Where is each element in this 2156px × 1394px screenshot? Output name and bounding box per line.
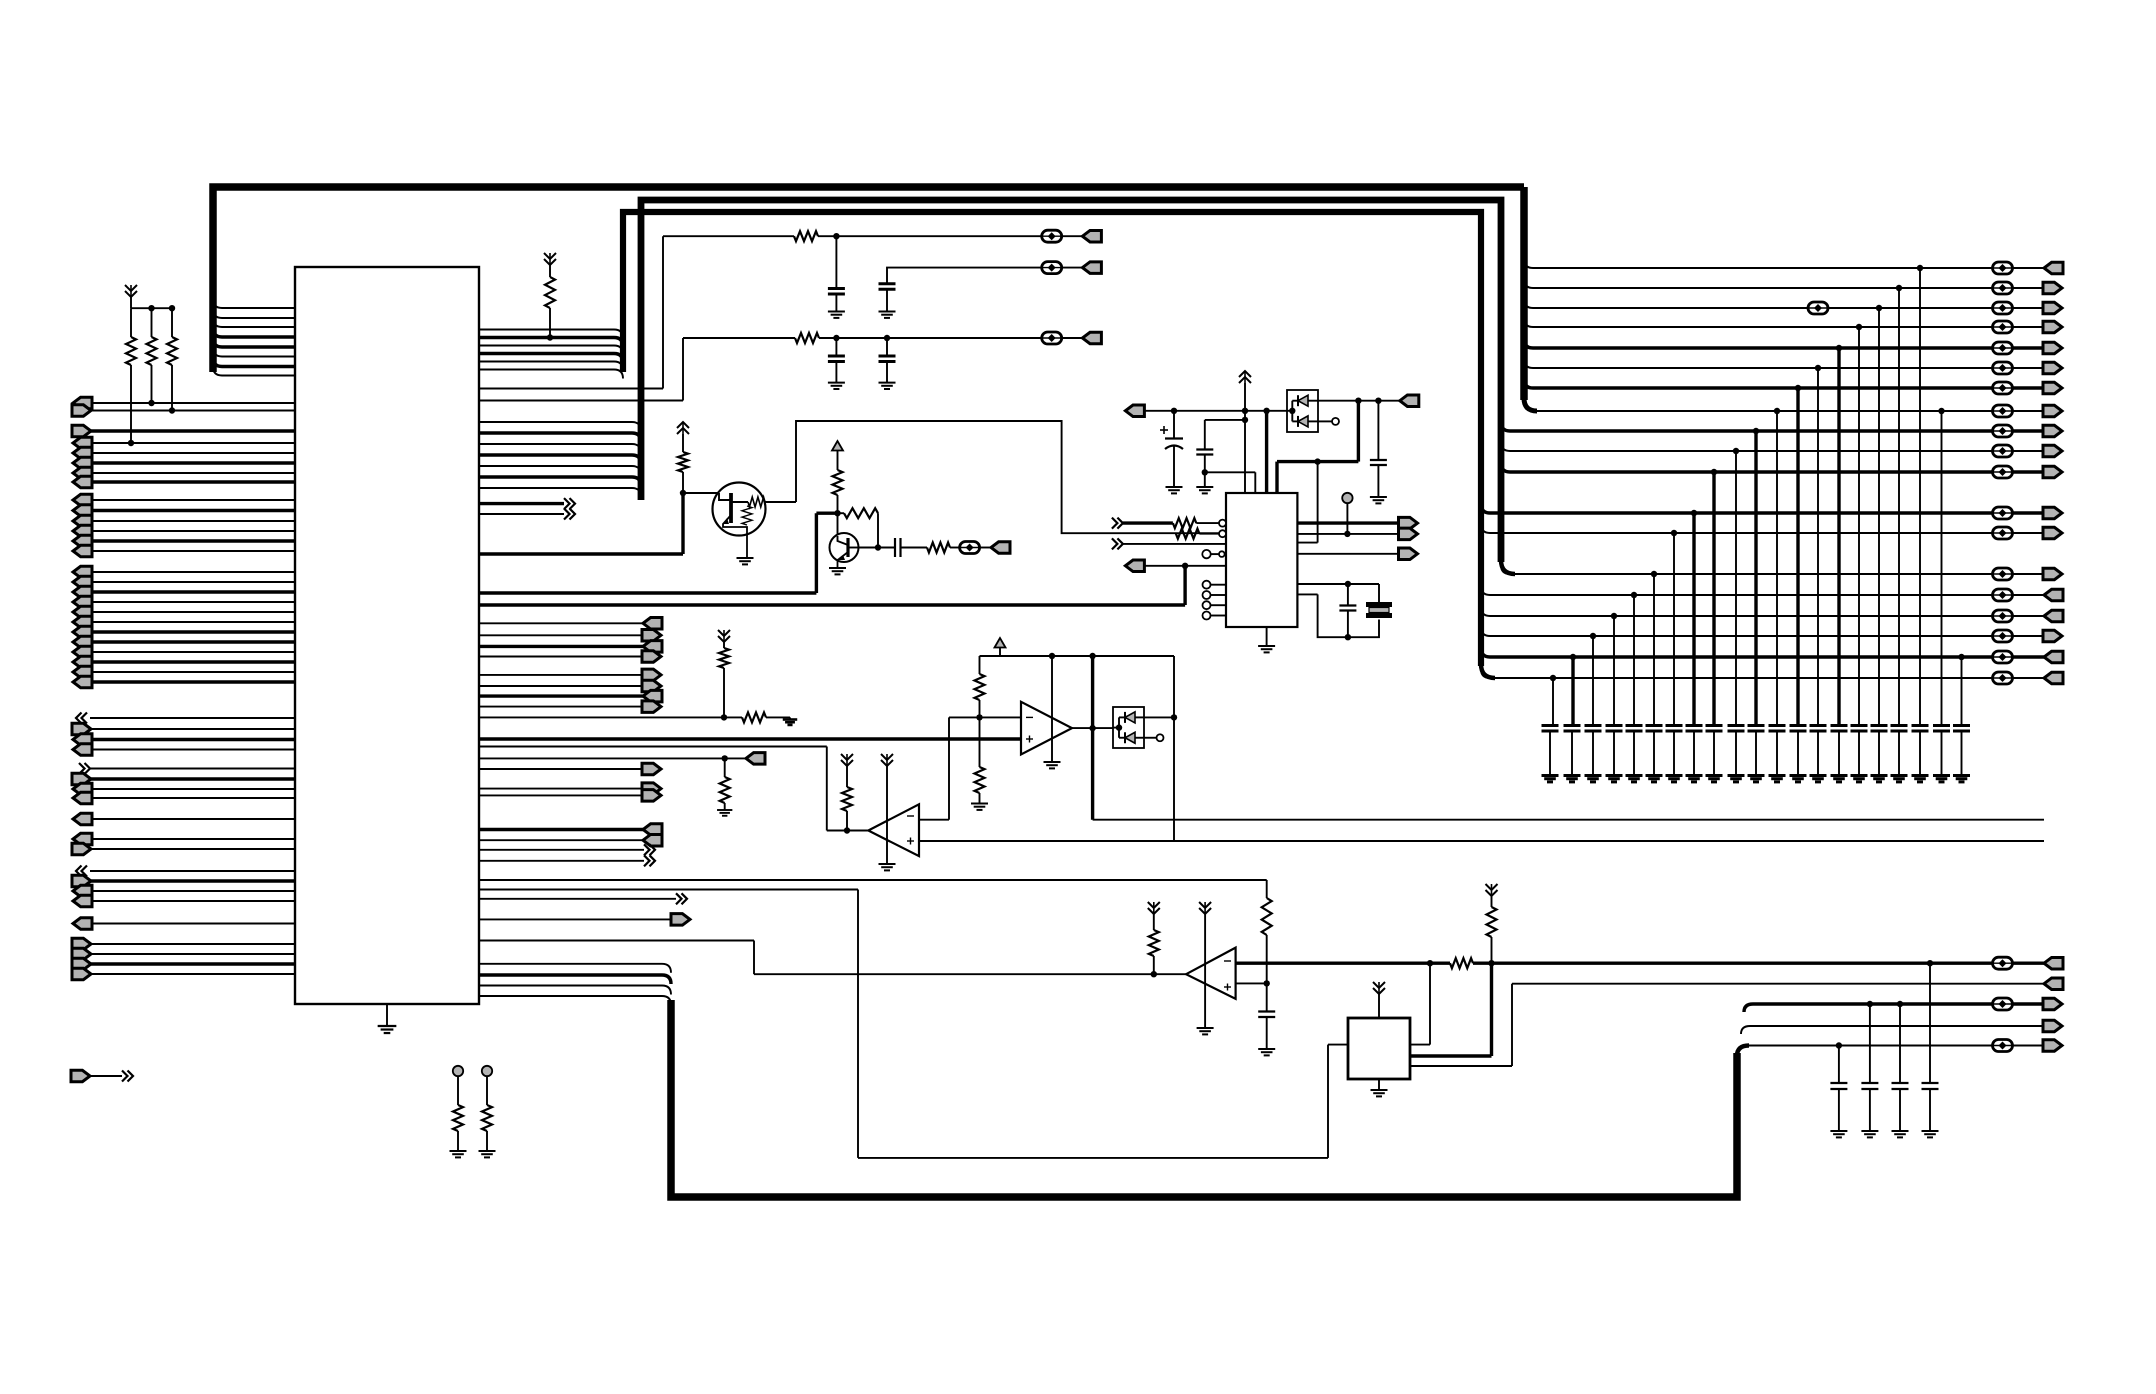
U2 top pin gnd loop (1202, 469, 1208, 475)
ground C268 (879, 311, 896, 313)
wire U2B +in row841 (919, 840, 2044, 842)
ground C-U2 (1196, 486, 1213, 488)
cap drop x=1818 (1815, 365, 1821, 371)
test point row 574 (1993, 568, 2013, 580)
wire bundle left y=366.5 (222, 365, 295, 368)
wire left pin y=718 (90, 717, 295, 719)
test point row 368 (1993, 362, 2013, 374)
row 820 right field (1093, 819, 2044, 821)
connector left in (73, 626, 92, 638)
connector left in (73, 447, 92, 459)
U2 top pin to diode node (1275, 462, 1278, 493)
wire bundle left y=318 (222, 317, 295, 319)
wire left pin y=463 (90, 461, 295, 464)
vertical D1 to U2 (1357, 401, 1360, 462)
arrow out 514 (479, 513, 564, 515)
wire left pin y=602 (90, 601, 295, 603)
capacitor series C-Q2 (894, 538, 896, 557)
connector left in (73, 833, 92, 845)
row 1004 bold (1753, 1002, 1992, 1005)
capacitor C338b (886, 338, 888, 356)
connector row1004 (2043, 998, 2062, 1010)
wire left pin y=500 (90, 499, 295, 501)
connector (2043, 527, 2062, 539)
connector (2043, 425, 2062, 437)
Q1 collector wire (764, 501, 796, 503)
connector (2043, 302, 2062, 314)
ground Q2 (829, 567, 846, 569)
wire bottom 1157 (858, 1157, 1328, 1159)
wire right row y=472 (1510, 470, 1992, 473)
wire 880 corner to resistor (1266, 880, 1268, 898)
connector right in (72, 968, 91, 980)
ground U4 (1378, 1079, 1380, 1090)
wire right row y=411 (1533, 410, 1992, 412)
arrow out 503 (479, 502, 564, 505)
U2 right row 523 (1297, 521, 1398, 524)
wire left pin y=672 (90, 671, 295, 673)
wire Q1 base row 554 (479, 552, 683, 555)
bus2 (641, 200, 1501, 562)
connector (2044, 610, 2063, 622)
wire right pin y=674.9 (479, 674, 643, 676)
wire right pin y=795.4 (479, 794, 642, 796)
connector left in (73, 636, 92, 648)
connector row1045 (2043, 1040, 2062, 1052)
bank cap x=1839 (1831, 724, 1848, 727)
cap drop x=1756 (1753, 428, 1759, 434)
wire right row y=431 (1510, 429, 1992, 432)
test point row 513 (1993, 507, 2013, 519)
vertical row657 to cap1962 (1958, 654, 1964, 660)
connector left in (73, 606, 92, 618)
test point row338 (1042, 332, 1062, 344)
arrow out 850 (479, 849, 644, 851)
wire left pin y=453 (90, 452, 295, 454)
test point row1004 (1993, 998, 2013, 1010)
connector left in (73, 813, 92, 825)
test point row 595 (1993, 589, 2013, 601)
bottom right caps (1838, 1046, 1840, 1084)
wire right pin y=623.3 (479, 622, 643, 624)
wire left pin y=779 (90, 777, 295, 780)
wire left pin y=901 (90, 900, 295, 902)
connector (2043, 466, 2062, 478)
wire row 746 op2 out return (479, 746, 827, 748)
capacitor C338a (835, 338, 837, 356)
op-amp U2B (868, 804, 919, 856)
test point row 678 (1993, 672, 2013, 684)
connector left in (73, 666, 92, 678)
resistor pullup op2 (841, 754, 853, 760)
wire left pin y=954 (90, 953, 295, 955)
resistor pullup op3 (1148, 902, 1160, 908)
wire top RC row 338 (683, 337, 795, 339)
wire right row y=595 (1490, 594, 1992, 596)
wire left pin y=923.5 (90, 923, 295, 925)
test point row 451 (1993, 445, 2013, 457)
capacitor C-U2 (1205, 419, 1245, 421)
connector row984 (2044, 978, 2063, 990)
wire left pin y=662 (90, 660, 295, 663)
bottom thick bus (671, 1000, 1737, 1197)
Q1 emitter (723, 515, 747, 558)
wire left pin y=849 (90, 848, 295, 850)
wire right row y=368 (1533, 367, 1992, 369)
wire row 593 (479, 591, 816, 594)
connector left in (73, 616, 92, 628)
wire row 919 connector (479, 918, 672, 920)
wire right pin y=788.6 (479, 788, 642, 790)
wire bundle left y=375.5 (222, 375, 295, 377)
wire U2B -in (919, 819, 949, 821)
connector (2043, 507, 2062, 519)
test point row 472 (1993, 466, 2013, 478)
bank cap x=1694 (1686, 724, 1703, 727)
bank cap x=1634 (1626, 724, 1643, 727)
bank cap x=1920 (1912, 724, 1929, 727)
connector right in (72, 958, 91, 970)
ground U2 (1266, 627, 1268, 646)
wire D1 out (1318, 400, 1400, 402)
connector left in (73, 545, 92, 557)
wire row 739 op-amp + (479, 737, 1021, 740)
connector row268 (1082, 262, 1101, 274)
connector row963 (2044, 957, 2063, 969)
wire bundle left y=347 (222, 345, 295, 348)
connector Q2 out (991, 542, 1010, 554)
wire left pin y=652 (90, 651, 295, 653)
test point row 388 (1993, 382, 2013, 394)
oscillator wires (1297, 583, 1379, 585)
wire left pin y=443 (90, 442, 295, 444)
test point row963 (1993, 957, 2013, 969)
bus3 (623, 212, 1481, 666)
wire left pin y=642 (90, 640, 295, 643)
arrow out 861 (479, 860, 644, 862)
wire left pin y=632 (90, 630, 295, 633)
wire left pin y=541 (90, 539, 295, 542)
test point row 657 (1993, 651, 2013, 663)
wire row 388 to top RC (479, 388, 663, 390)
wire bundle left y=327 (222, 326, 295, 328)
extra test point row 308 (1808, 302, 1828, 314)
wire bundle left y=308 (222, 307, 295, 309)
wire right row y=533 (1490, 532, 1992, 534)
IC right bundle to bus3 (479, 329, 614, 331)
connector row236 (1082, 230, 1101, 242)
row 1045 (1746, 1045, 1992, 1047)
wire left pin y=592 (90, 590, 295, 593)
wire left pin y=531 (90, 530, 295, 532)
resistor R-op3 fb (1262, 898, 1272, 935)
test point row268 (1042, 262, 1062, 274)
connector (2043, 445, 2062, 457)
connector left in (73, 586, 92, 598)
connector (2044, 651, 2063, 663)
arrow << (82, 866, 88, 877)
wire U3 -input (949, 716, 1021, 718)
bank cap x=1714 (1706, 724, 1723, 727)
U2 left pin row3 (1112, 538, 1118, 549)
cap drop x=1714 (1711, 469, 1717, 475)
connector left in (73, 515, 92, 527)
bank cap x=1899 (1891, 724, 1908, 727)
bank cap x=1798 (1790, 724, 1807, 727)
test point row 636 (1993, 630, 2013, 642)
bus1 left vertical (213, 187, 1524, 372)
bank cap x=1961.5 (1953, 724, 1970, 727)
bank cap x=1859 (1851, 724, 1868, 727)
resistor R717 (742, 712, 766, 722)
U4 right pin3 (1410, 1065, 1512, 1067)
power chain op3 (1199, 902, 1211, 908)
power arrow U4 (1373, 982, 1385, 988)
wire right pin y=840.2 (479, 839, 643, 841)
ground U3 (1044, 761, 1061, 763)
connector left in (73, 734, 92, 746)
power arrow U3 (995, 638, 1006, 648)
wire op3 +in (1236, 982, 1267, 984)
connector left in (73, 576, 92, 588)
bottom bus fan arcs (1737, 1046, 1749, 1057)
ground C236 (828, 311, 845, 313)
connector left in (73, 525, 92, 537)
wire row 758 (479, 757, 746, 759)
test point row 348 (1993, 342, 2013, 354)
wire left pin y=729 (90, 728, 295, 730)
connector left in (73, 676, 92, 688)
wire left pin y=739.5 (90, 738, 295, 741)
wire right pin y=656.5 (479, 656, 643, 658)
wire left pin y=974 (90, 973, 295, 975)
bank cap x=1654 (1646, 724, 1663, 727)
Q1 pullup resistor (677, 428, 689, 434)
wire row 605 (479, 603, 1185, 606)
connector left in (73, 792, 92, 804)
bank cap x=1674 (1666, 724, 1683, 727)
capacitor C-D1 (1377, 401, 1379, 460)
resistor row338 (795, 333, 819, 343)
wire bundle left y=337 (222, 335, 295, 338)
wire top RC row 268 (887, 268, 1042, 284)
cap drop x=1553 (1550, 675, 1556, 681)
wire U3 output (1072, 727, 1113, 729)
connector right in (72, 875, 91, 887)
Q1 internal resistor 2 (742, 506, 752, 525)
ground IC U1 (386, 1004, 388, 1026)
ground C-op3 (1258, 1048, 1275, 1050)
bank cap x=1777 (1769, 724, 1786, 727)
connector (2044, 262, 2063, 274)
wire U2 Vin (1144, 410, 1287, 412)
wire left pin y=572 (90, 571, 295, 573)
wire left pin y=789 (90, 788, 295, 790)
wire U4 left (1328, 1044, 1348, 1046)
test pin 1 (453, 1066, 463, 1076)
test pin 2 (482, 1066, 492, 1076)
wire right row y=268 (1533, 267, 1992, 269)
wire left pin y=819 (90, 818, 295, 820)
wire left pin y=612 (90, 611, 295, 613)
U3 power rail (1051, 656, 1053, 762)
wire right row y=513 (1490, 511, 1992, 514)
resistor R656 upper (979, 656, 981, 674)
wire right row y=451 (1510, 450, 1992, 452)
row 984 right field (1512, 983, 2044, 985)
test point row 308 (1993, 302, 2013, 314)
resistor R pullup x550 (544, 253, 556, 259)
wire D2 top to x1174 (1144, 716, 1174, 718)
resistor chain x724 upper (718, 630, 730, 636)
cap drop x=1654 (1651, 571, 1657, 577)
wire right row y=678 (1490, 677, 1992, 679)
test point row 327 (1993, 321, 2013, 333)
resistor chain x724 lower (724, 758, 726, 777)
wire left pin y=768.5 (90, 768, 295, 770)
wire left pin y=871 (90, 870, 295, 872)
connector left row 758 (746, 753, 765, 765)
connector left in (73, 656, 92, 668)
wire row 888 long (479, 889, 858, 891)
IC U4 (1348, 1018, 1410, 1079)
wire left pin y=622 (90, 621, 295, 623)
cap drop x=1736 (1733, 448, 1739, 454)
test point row236 (1042, 230, 1062, 242)
open circle D1 (1318, 420, 1332, 422)
connector left in (73, 437, 92, 449)
IC U1 main microcontroller (295, 267, 479, 1004)
connector left U2 in (1125, 405, 1144, 417)
connector (2043, 568, 2062, 580)
wire row 717 RC (479, 716, 742, 718)
capacitor C236 (835, 236, 837, 288)
wire row 400 to RC2 (479, 400, 683, 402)
cap drop x=1777 (1774, 408, 1780, 414)
wire right pin y=646.4 (479, 645, 643, 648)
row 1026 (1750, 1025, 2044, 1027)
test point row 431 (1993, 425, 2013, 437)
test point row 288 (1993, 282, 2013, 294)
connector right in (72, 425, 91, 437)
cap drop x=1920 (1917, 265, 1923, 271)
wire right pin y=635.3 (479, 634, 643, 636)
bank cap x=1756 (1748, 724, 1765, 727)
connector row1026 (2043, 1020, 2062, 1032)
power chain op2 (881, 754, 893, 760)
connector left in (73, 535, 92, 547)
extra vertical row411 to cap1942 (1938, 408, 1944, 414)
U2 right row 534 (1297, 533, 1398, 535)
wire left pin y=551 (90, 550, 295, 552)
resistor R963 (1450, 958, 1473, 968)
cap drop x=1573 (1570, 654, 1576, 660)
connector left in (73, 467, 92, 479)
wire right row y=636 (1490, 635, 1992, 637)
resistor Q2 pullup (833, 470, 843, 495)
wire left pin y=510.5 (90, 509, 295, 512)
bank cap x=1941.5 (1933, 724, 1950, 727)
wire left pin y=839 (90, 838, 295, 840)
wire right row y=616 (1490, 615, 1992, 617)
crystal Y1 (1366, 602, 1392, 607)
arrow << (82, 713, 88, 724)
test point row 616 (1993, 610, 2013, 622)
connector (2043, 630, 2062, 642)
cap drop x=1694 (1691, 510, 1697, 516)
capacitor C268 (879, 282, 896, 285)
wire left pin y=964 (90, 962, 295, 965)
U4 right pin2 bold (1410, 1054, 1492, 1057)
connector left in (73, 457, 92, 469)
resistor pullup row963 (1486, 884, 1498, 890)
arrow >> (79, 763, 85, 774)
wire left pin y=682 (90, 680, 295, 683)
U2 right row 554 (1297, 553, 1398, 555)
connector left U2 row565 (1125, 560, 1144, 572)
connector left in (73, 505, 92, 517)
connector (2043, 405, 2062, 417)
wire right row y=657 (1490, 655, 1992, 658)
wire right row y=388 (1533, 386, 1992, 389)
wire right row y=308 (1533, 307, 1992, 309)
IC right bottom bundle to bottom bus (479, 963, 662, 965)
tie wire (130, 297, 132, 308)
wire node 656 (980, 655, 1175, 657)
connector right in (72, 948, 91, 960)
connector left in (73, 646, 92, 658)
IC right bundle to bus2 (479, 421, 632, 423)
connector (2043, 321, 2062, 333)
bank cap x=1879 (1871, 724, 1888, 727)
wire U2B output (827, 830, 869, 832)
bank cap x=1818 (1810, 724, 1827, 727)
connector (2043, 282, 2062, 294)
Q2 output wire (859, 547, 895, 549)
wire top RC row 236 (663, 235, 794, 237)
connector (2043, 362, 2062, 374)
connector left in (73, 783, 92, 795)
IC U2 (1226, 493, 1297, 627)
bank cap x=1614 (1606, 724, 1623, 727)
capacitor C-op3 (1258, 1010, 1275, 1012)
connector right in (72, 773, 91, 785)
cap drop x=1593 (1590, 633, 1596, 639)
power arrow Q2 (832, 441, 843, 451)
arrow out 899 (479, 898, 676, 900)
wire left pin y=431 (90, 429, 295, 432)
wire bundle left y=356.5 (222, 356, 295, 358)
wire left pin y=749.5 (90, 749, 295, 751)
connector left in (73, 744, 92, 756)
ground op2 (879, 863, 896, 865)
U2 left open circles (1203, 581, 1211, 589)
wire left pin y=944 (90, 943, 295, 945)
connector right in (72, 405, 91, 417)
wire right pin y=706.6 (479, 706, 643, 708)
cap drop x=1879 (1876, 305, 1882, 311)
resistor Q2 feedback (838, 512, 845, 514)
wire op3 -in row 963 (1236, 962, 1430, 965)
connector (2044, 589, 2063, 601)
op3 output wire (1151, 971, 1157, 977)
U4 right pin1 (1410, 1044, 1430, 1046)
cap drop x=1634 (1631, 592, 1637, 598)
connector left in (73, 397, 92, 409)
wire row 880 long (479, 879, 1267, 881)
ground op3 (1197, 1027, 1214, 1029)
connector bottom left (71, 1070, 90, 1082)
